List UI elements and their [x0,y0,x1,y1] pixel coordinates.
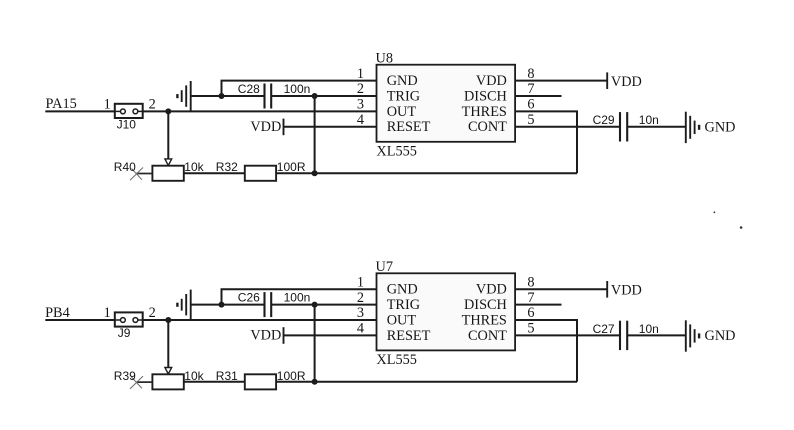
wire TRIG drop [314,96,316,173]
power symbol VDD (RESET) [283,119,285,136]
wire pin 8 to VDD [515,288,607,290]
svg-text:6: 6 [527,305,534,321]
wire C29 to ground [627,126,686,128]
svg-text:J10: J10 [117,118,137,132]
svg-text:3: 3 [357,305,364,321]
svg-text:R39: R39 [114,369,136,383]
svg-text:2: 2 [149,96,156,112]
IC U8 XL555 timer body [377,65,516,142]
no-connect cross R39 [130,376,143,389]
svg-text:100R: 100R [277,160,306,174]
svg-text:C29: C29 [593,113,615,127]
wire pin 6 THRES to rail [515,111,577,173]
svg-text:C27: C27 [593,322,615,336]
svg-text:U8: U8 [376,51,393,67]
wire jumper J9 to OUT pin 3 [143,319,377,321]
svg-text:1: 1 [104,96,111,112]
jumper J10 [115,104,143,118]
svg-text:10k: 10k [184,160,204,174]
wire GND pin 1 [222,81,377,96]
svg-text:10n: 10n [639,322,659,336]
capacitor C28 [265,84,272,109]
svg-text:CONT: CONT [468,328,507,344]
svg-text:8: 8 [527,66,534,82]
svg-text:R31: R31 [216,369,238,383]
stray speck 1 [714,211,716,213]
stray speck 2 [740,226,743,229]
svg-text:1: 1 [357,66,364,82]
wire C28 to TRIG pin 2 [271,95,376,97]
svg-text:PA15: PA15 [46,96,77,112]
wire net PA15 to jumper J10 pin 1 [45,110,115,112]
capacitor C29 [620,112,627,141]
svg-text:OUT: OUT [387,312,417,328]
svg-text:3: 3 [357,97,364,113]
svg-text:GND: GND [387,73,418,89]
svg-text:1: 1 [357,274,364,290]
wire R31 to THRES rail [276,381,577,383]
wire VDD to RESET pin 4 [284,334,377,336]
svg-text:TRIG: TRIG [387,88,420,104]
svg-text:5: 5 [527,321,534,337]
junction TRIG / drop [312,93,318,99]
wire junction to capacitor C26 [222,304,265,306]
power symbol VDD (pin 8) [606,281,608,298]
junction GND / pin 1 riser [219,302,225,308]
svg-text:XL555: XL555 [376,352,417,368]
svg-text:100n: 100n [284,291,311,305]
wire jumper J10 to OUT pin 3 [143,110,377,112]
potentiometer wiper arrowhead [165,368,172,375]
junction GND / pin 1 riser [219,93,225,99]
wire VDD to RESET pin 4 [284,126,377,128]
wire pin 5 CONT to C27 [515,334,620,336]
junction rail / TRIG drop [312,170,318,176]
ground symbol right [686,320,699,351]
svg-text:DISCH: DISCH [464,297,507,313]
wire down to potentiometer wiper [167,320,169,368]
svg-text:C28: C28 [238,82,260,96]
svg-text:R40: R40 [114,160,136,174]
svg-text:5: 5 [527,112,534,128]
svg-text:GND: GND [705,119,736,135]
junction at jumper output [165,317,171,323]
svg-text:DISCH: DISCH [464,88,507,104]
svg-text:U7: U7 [376,259,393,275]
wire C27 to ground [627,334,686,336]
svg-text:10n: 10n [639,113,659,127]
svg-text:VDD: VDD [476,282,507,298]
svg-text:THRES: THRES [462,104,507,120]
wire net PB4 to jumper J9 pin 1 [45,319,115,321]
svg-text:THRES: THRES [462,312,507,328]
svg-text:10k: 10k [184,369,204,383]
svg-text:7: 7 [527,81,534,97]
svg-text:4: 4 [357,112,364,128]
svg-text:VDD: VDD [476,73,507,89]
wire GND pin 1 [222,289,377,304]
svg-text:6: 6 [527,97,534,113]
svg-text:VDD: VDD [611,283,642,299]
wire junction to capacitor C28 [222,95,265,97]
wire C26 to TRIG pin 2 [271,304,376,306]
svg-text:2: 2 [357,81,364,97]
junction at jumper output [165,108,171,114]
svg-text:VDD: VDD [250,328,281,344]
jumper J9 [115,312,143,326]
wire pin 6 THRES to rail [515,320,577,382]
svg-text:2: 2 [149,305,156,321]
stub R40 unused terminal [136,173,152,175]
power symbol VDD (RESET) [283,327,285,344]
wire ground to GND junction [191,304,222,306]
junction rail / TRIG drop [312,379,318,385]
svg-text:4: 4 [357,321,364,337]
svg-text:100n: 100n [284,82,311,96]
wire potentiometer to R32 [184,172,245,174]
potentiometer R39 body [152,374,183,389]
svg-text:1: 1 [104,305,111,321]
svg-text:RESET: RESET [387,328,431,344]
resistor R32 body [245,166,276,181]
wire pin 8 to VDD [515,80,607,82]
svg-text:2: 2 [357,290,364,306]
power symbol VDD (pin 8) [606,72,608,89]
potentiometer R40 body [152,166,183,181]
no-connect cross R40 [130,168,143,181]
svg-text:7: 7 [527,290,534,306]
ground symbol left [177,81,190,112]
svg-text:8: 8 [527,274,534,290]
wire pin 5 CONT to C29 [515,126,620,128]
svg-text:GND: GND [705,328,736,344]
wire R32 to THRES rail [276,172,577,174]
svg-text:VDD: VDD [611,74,642,90]
wire pin 7 DISCH stub [515,95,561,97]
junction TRIG / drop [312,302,318,308]
svg-text:XL555: XL555 [376,143,417,159]
wire TRIG drop [314,305,316,382]
svg-text:OUT: OUT [387,104,417,120]
svg-text:CONT: CONT [468,119,507,135]
IC U7 XL555 timer body [377,273,516,350]
svg-text:RESET: RESET [387,119,431,135]
svg-text:C26: C26 [238,291,260,305]
ground symbol left [177,290,190,321]
capacitor C26 [265,292,272,317]
ground symbol right [686,112,699,143]
resistor R31 body [245,374,276,389]
potentiometer wiper arrowhead [165,159,172,166]
svg-text:GND: GND [387,282,418,298]
svg-text:100R: 100R [277,369,306,383]
svg-text:J9: J9 [118,326,131,340]
capacitor C27 [620,321,627,350]
svg-text:TRIG: TRIG [387,297,420,313]
svg-text:PB4: PB4 [45,305,70,321]
wire ground to GND junction [191,95,222,97]
stub R39 unused terminal [136,381,152,383]
svg-text:R32: R32 [216,160,238,174]
wire potentiometer to R31 [184,381,245,383]
wire pin 7 DISCH stub [515,304,561,306]
wire down to potentiometer wiper [167,111,169,158]
svg-text:VDD: VDD [250,119,281,135]
